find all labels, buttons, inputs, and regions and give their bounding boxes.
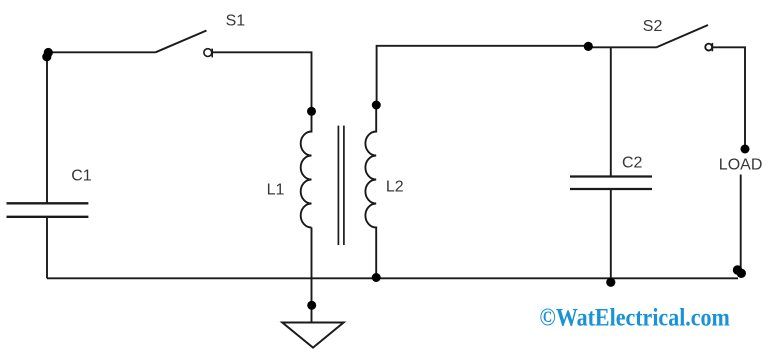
wire top-right rail to S2 xyxy=(588,46,656,48)
svg-text:L2: L2 xyxy=(386,179,404,196)
svg-text:S2: S2 xyxy=(643,18,663,35)
switch S2 blade xyxy=(656,25,708,48)
node dot bottom-right xyxy=(733,265,742,274)
node dot C2 bottom xyxy=(606,278,615,287)
inductor L2 xyxy=(365,105,376,278)
wire left vertical to C1 xyxy=(46,52,48,203)
wire top-left horizontal xyxy=(47,51,156,53)
svg-text:©WatElectrical.com: ©WatElectrical.com xyxy=(539,305,730,332)
svg-text:C1: C1 xyxy=(71,168,92,185)
svg-text:S1: S1 xyxy=(226,13,246,30)
svg-text:L1: L1 xyxy=(267,181,285,198)
wire S1 to L1 branch xyxy=(212,52,311,111)
ground xyxy=(282,323,343,348)
capacitor C1 top plate xyxy=(7,202,89,204)
node dot top-right rail xyxy=(584,42,593,51)
node dot ground stem xyxy=(307,301,316,310)
capacitor C2 top plate xyxy=(570,175,652,177)
switch S1 contact circle xyxy=(204,49,212,57)
svg-text:C2: C2 xyxy=(622,155,643,172)
wire bottom rail xyxy=(47,277,738,279)
wire C1 bottom to bottom rail xyxy=(46,217,48,278)
wire S2 to LOAD top xyxy=(712,47,745,149)
capacitor C1 bottom plate xyxy=(7,216,89,218)
node dot L2 bottom xyxy=(372,273,381,282)
inductor L1 xyxy=(301,111,312,228)
wire C2 branch lower xyxy=(610,189,612,278)
wire LOAD bottom xyxy=(740,175,742,271)
node dot L2 top xyxy=(372,101,381,110)
node dot LOAD top xyxy=(741,145,750,154)
wire L2 top to top-right rail xyxy=(377,46,589,105)
transformer core xyxy=(337,126,339,245)
node dot L1 top xyxy=(307,107,316,116)
wire C2 branch upper xyxy=(610,47,612,176)
svg-text:LOAD: LOAD xyxy=(719,157,763,174)
node dot top-left xyxy=(44,48,53,57)
switch S1 blade xyxy=(156,31,207,53)
capacitor C2 bottom plate xyxy=(570,188,652,190)
wire L1 bottom to ground xyxy=(311,228,313,323)
switch S2 contact circle xyxy=(705,44,712,51)
